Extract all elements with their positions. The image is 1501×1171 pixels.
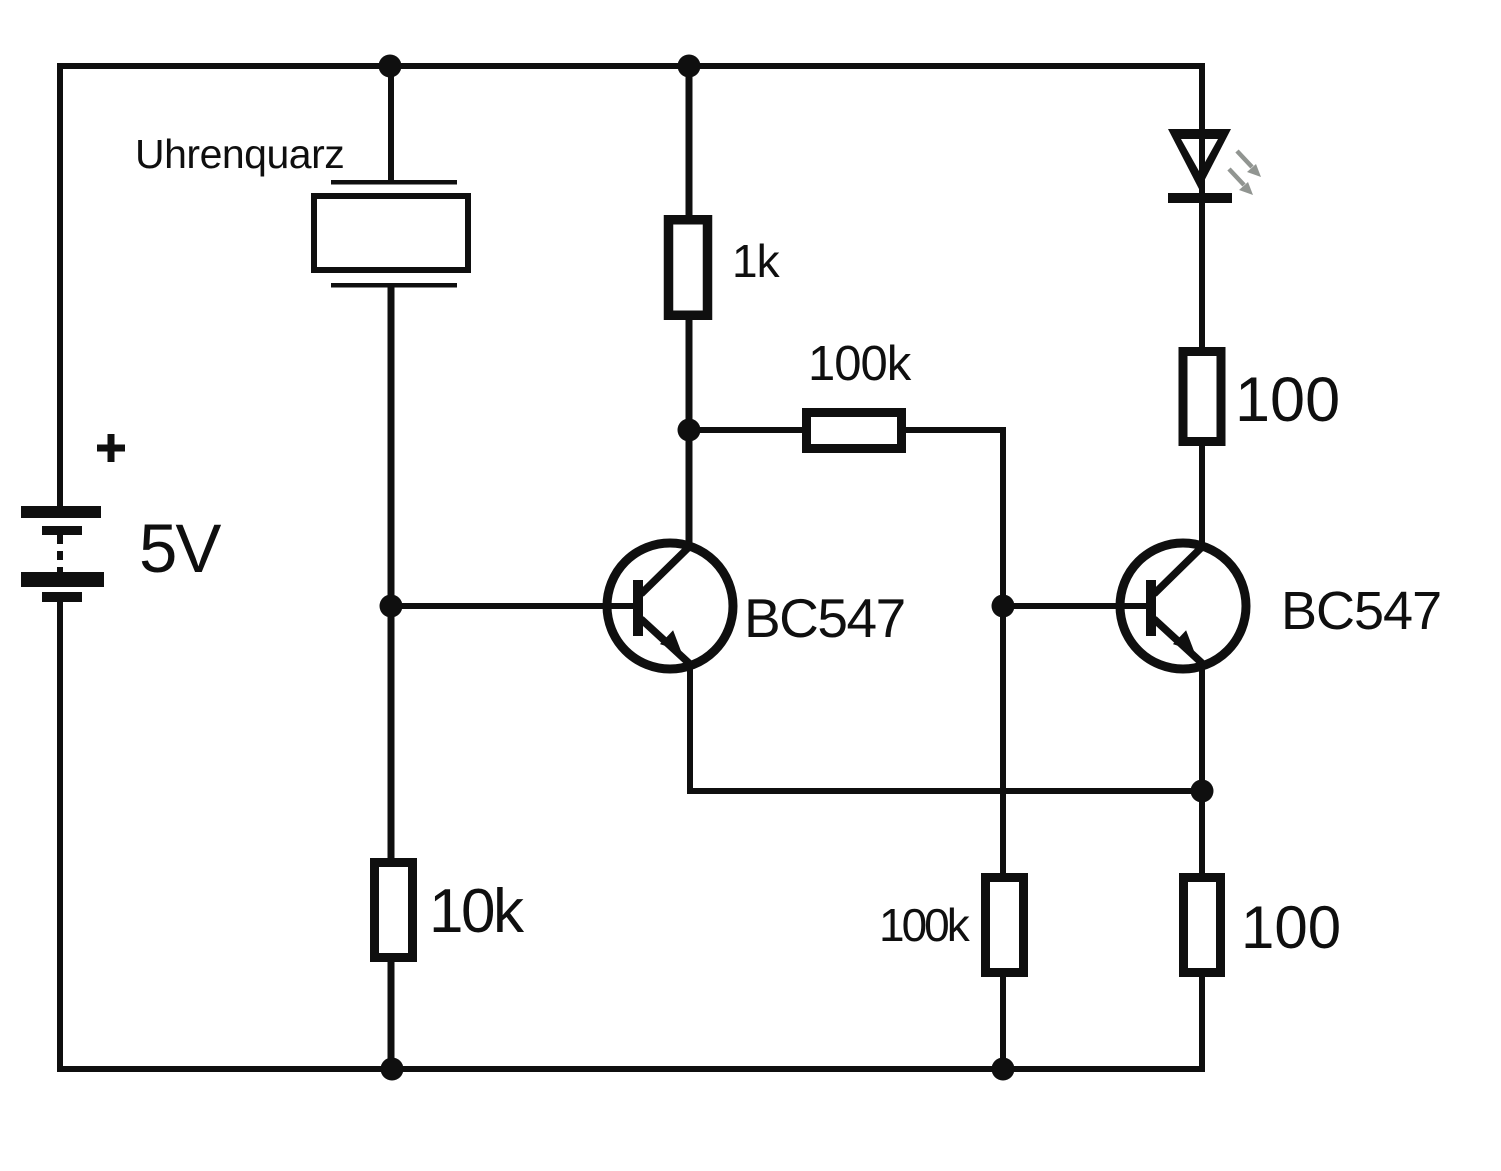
battery B1 dashed middle wire: [57, 535, 63, 572]
wire: crystal branch upper segment: [388, 66, 394, 182]
transistor Q2 emitter diagonal: [1154, 619, 1204, 665]
node dot Q2 base junction: [992, 595, 1015, 618]
svg-text:BC547: BC547: [744, 587, 905, 649]
transistor Q1 emitter diagonal: [641, 619, 691, 665]
wire: 100k horizontal branch and drop to bottom 100k: [689, 430, 1003, 874]
wire: T2 base wire: [1003, 603, 1152, 609]
LED light arrow 2: [1229, 169, 1253, 195]
node dot Q1 base junction: [380, 595, 403, 618]
svg-text:Uhrenquarz: Uhrenquarz: [135, 131, 344, 177]
svg-text:100k: 100k: [879, 899, 971, 951]
resistor 1k body: [669, 220, 708, 316]
resistor 100 bottom-right body: [1184, 878, 1221, 973]
transistor Q1 collector diagonal: [641, 546, 690, 594]
svg-text:100: 100: [1235, 365, 1340, 435]
node dot bottom rail 10k: [381, 1058, 404, 1081]
transistor Q2 base bar: [1146, 580, 1156, 636]
wire: 1k / T1 collector branch: [686, 66, 693, 548]
svg-text:100k: 100k: [808, 337, 912, 391]
transistor Q1 circle: [607, 543, 733, 669]
node dot top rail crystal: [379, 55, 402, 78]
transistor Q1 emitter arrow: [660, 630, 681, 651]
resistor 100k bottom body: [986, 878, 1024, 973]
LED D1 cathode bar: [1168, 193, 1232, 203]
svg-text:5V: 5V: [139, 510, 221, 587]
crystal X1 top electrode: [331, 180, 457, 185]
resistor 100 top-right body: [1183, 352, 1221, 442]
wire: left rail + top rail + right branch down to bottom: [60, 66, 1202, 1072]
transistor Q2 collector diagonal: [1154, 546, 1203, 594]
transistor Q1 base bar: [633, 580, 643, 636]
battery B1 plate long top: [21, 506, 101, 518]
wire: bottom 100k to bottom rail: [1000, 977, 1006, 1069]
LED light arrow 1: [1237, 151, 1261, 177]
battery B1 plate long bottom: [21, 572, 104, 587]
svg-text:BC547: BC547: [1281, 581, 1441, 641]
svg-text:10k: 10k: [429, 877, 525, 946]
resistor 100k horizontal body: [807, 413, 902, 449]
svg-text:100: 100: [1241, 894, 1341, 961]
battery B1 plate short bottom: [42, 592, 82, 602]
wire: battery bottom + bottom rail: [60, 600, 1202, 1069]
battery B1 plate short top: [42, 526, 82, 535]
wire: T1 base wire: [391, 603, 640, 609]
node dot bottom rail 100k: [992, 1058, 1015, 1081]
node dot emitter junction: [1191, 780, 1214, 803]
resistor 10k body: [375, 863, 413, 958]
node dot 1k/100k junction: [678, 419, 701, 442]
wire: T1 emitter down and right to junction: [690, 662, 1202, 791]
crystal X1 bottom electrode: [331, 283, 457, 288]
svg-text:1k: 1k: [732, 235, 781, 287]
LED D1 triangle outline: [1168, 129, 1231, 190]
battery plus sign: [97, 434, 125, 462]
node dot top rail 1k: [678, 55, 701, 78]
transistor Q2 emitter arrow: [1173, 630, 1194, 651]
transistor Q2 circle: [1120, 543, 1246, 669]
crystal X1 body: [314, 196, 468, 270]
wire: crystal branch lower segment through 10k to bottom rail: [388, 283, 395, 1069]
